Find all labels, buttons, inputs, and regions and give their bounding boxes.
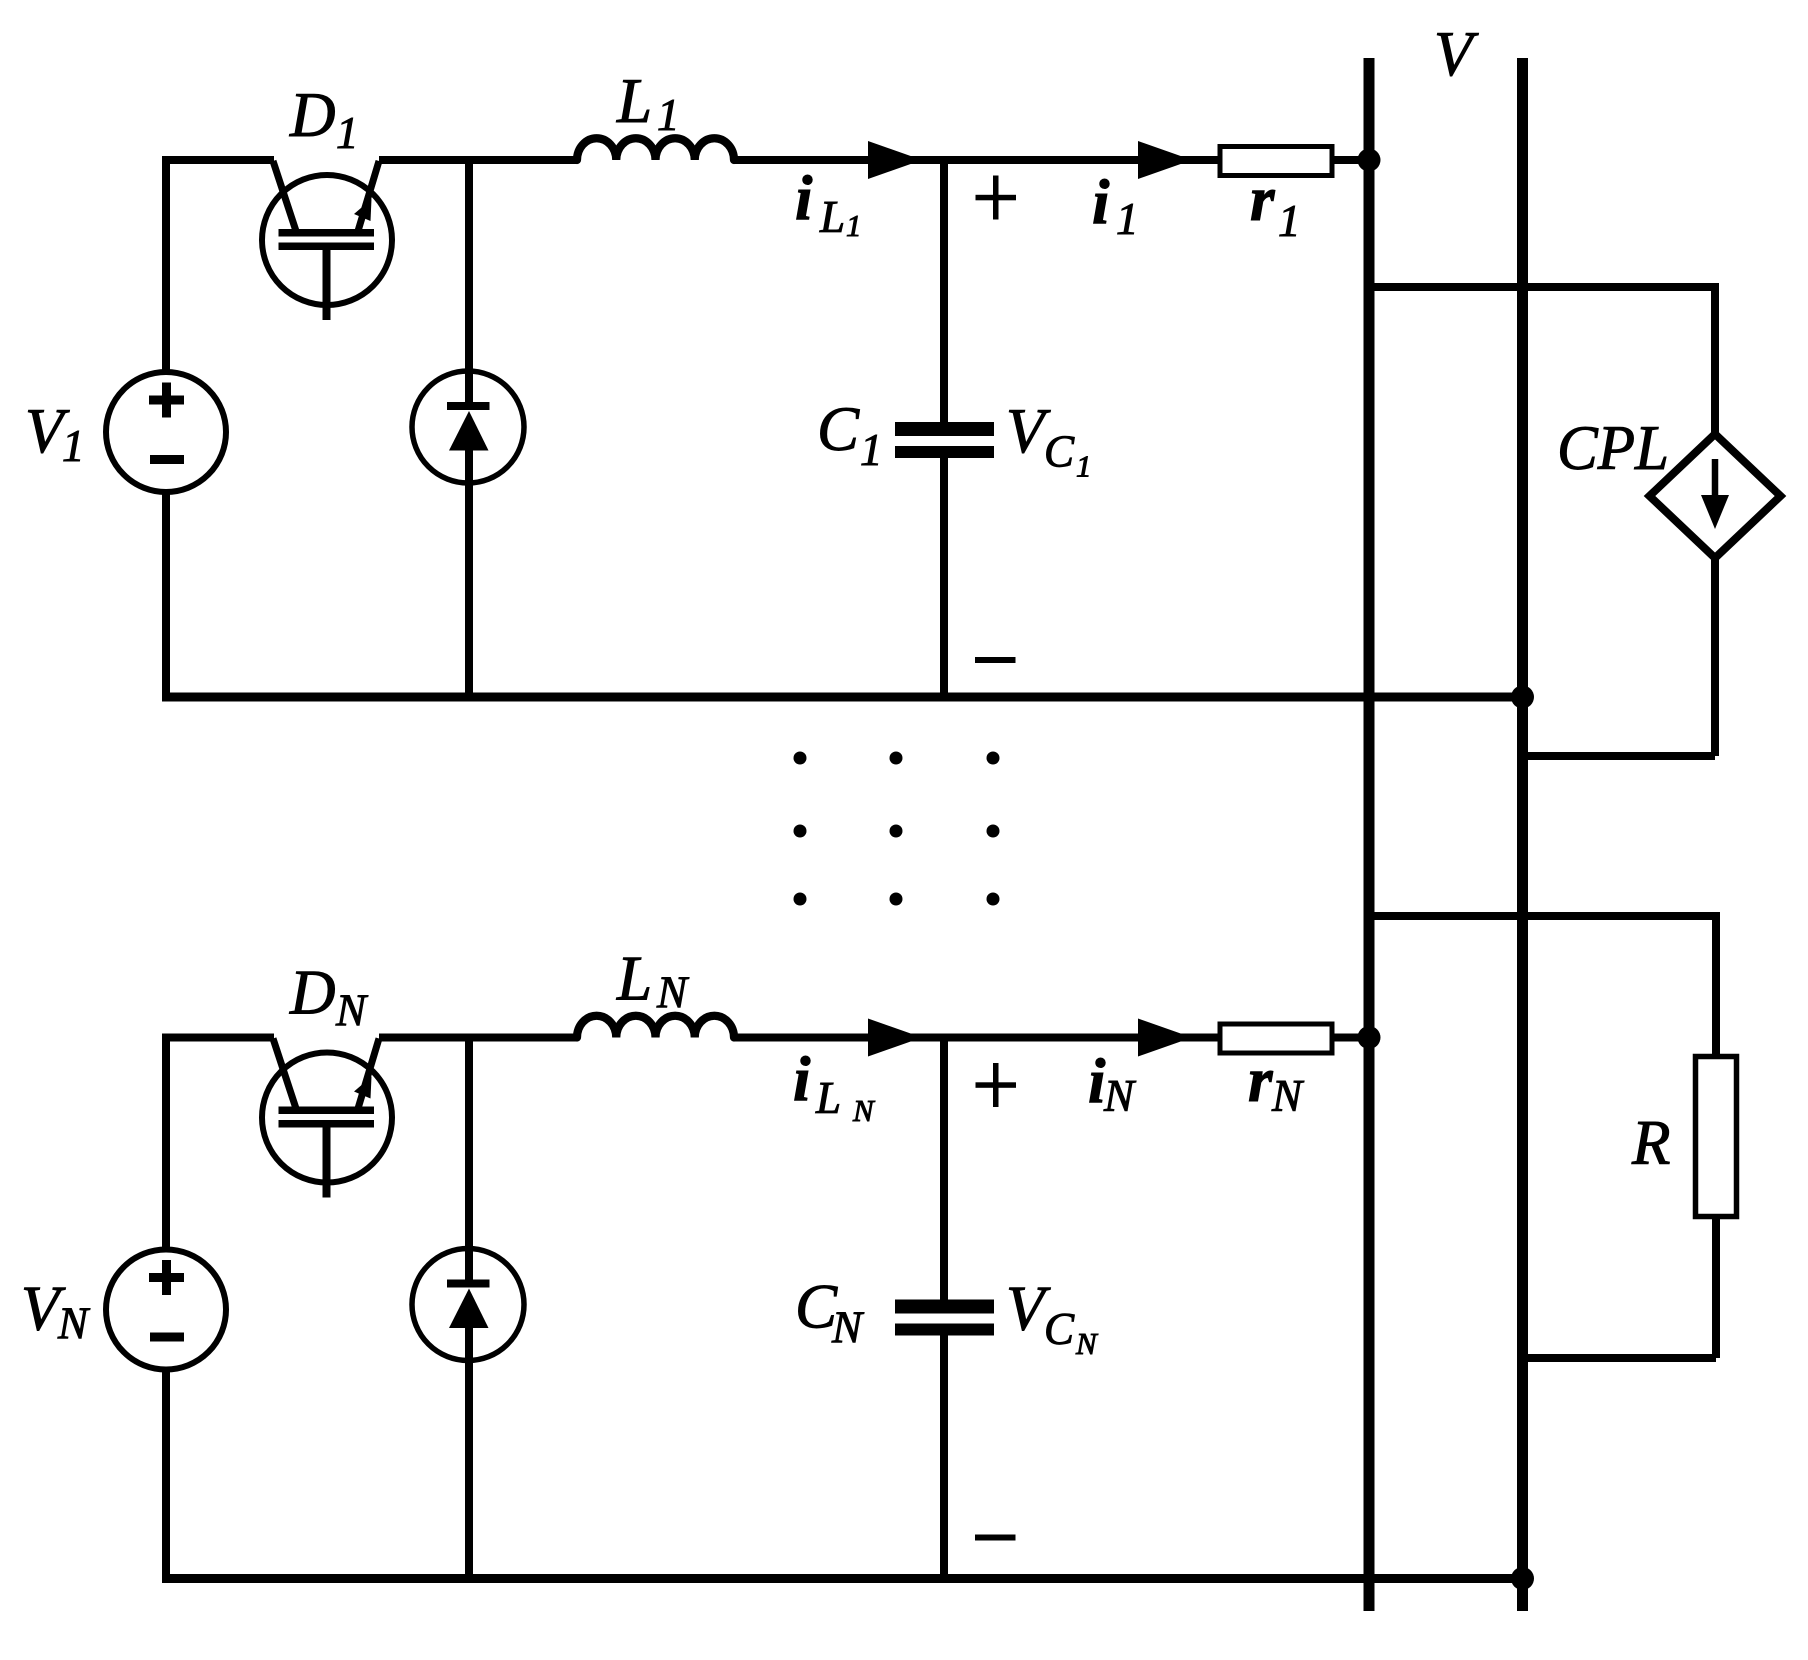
svg-text:CPL: CPL	[1557, 413, 1669, 483]
svg-text:N: N	[1075, 1326, 1099, 1361]
resistor R	[1696, 1057, 1737, 1217]
svg-text:N: N	[335, 986, 369, 1036]
svg-text:1: 1	[846, 208, 862, 243]
svg-text:C: C	[817, 394, 860, 464]
bus: return DC bus (right vertical)	[1517, 58, 1528, 1611]
wire: diode branch lower lead (converter N)	[465, 1326, 473, 1584]
svg-text:N: N	[57, 1299, 91, 1349]
label plus (capacitor N polarity)	[976, 1082, 1017, 1088]
svg-text:r: r	[1250, 164, 1275, 234]
wire: resistor R upper lead	[1712, 912, 1720, 1058]
wire: capacitor CN bottom lead	[940, 1336, 948, 1584]
svg-text:1: 1	[657, 90, 680, 140]
svg-text:C: C	[1044, 427, 1075, 477]
svg-text:V: V	[1434, 19, 1479, 89]
current arrow i_LN	[868, 1019, 922, 1057]
svg-text:1: 1	[1076, 449, 1092, 484]
inductor L1	[577, 138, 734, 160]
voltage source VN	[106, 1250, 226, 1370]
wire: top rail middle segment (converter 1)	[379, 156, 577, 164]
bus: positive DC bus (left vertical)	[1364, 58, 1375, 1611]
wire: CPL return to bus	[1523, 752, 1716, 760]
wire: resistor R lower lead	[1712, 1215, 1720, 1358]
svg-text:N: N	[852, 1093, 876, 1128]
wire: top rail left segment (converter N)	[162, 1034, 274, 1042]
svg-text:N: N	[1271, 1071, 1305, 1121]
svg-text:1: 1	[860, 425, 883, 475]
current arrow i_L1	[868, 141, 922, 179]
wire: top rail right segment through node to resistor r1 and bus	[734, 156, 1369, 164]
diode (circled) of converter N	[412, 1249, 524, 1361]
wire: source VN top lead	[162, 1034, 170, 1250]
node: converter 1 output junction on bus	[1358, 149, 1381, 172]
svg-text:1: 1	[62, 421, 85, 471]
wire: top rail middle segment (converter N)	[379, 1034, 577, 1042]
current arrow i_N	[1138, 1019, 1192, 1057]
transistor DN (circled switch)	[262, 1053, 392, 1183]
svg-text:L: L	[616, 66, 652, 136]
resistor r1	[1220, 147, 1332, 176]
wire: source V1 top lead	[162, 156, 170, 372]
svg-text:L: L	[616, 944, 652, 1014]
diode (circled) of converter 1	[412, 371, 524, 483]
label minus (capacitor 1 polarity)	[975, 657, 1016, 663]
svg-text:i: i	[1092, 167, 1110, 237]
label minus (capacitor N polarity)	[975, 1535, 1016, 1541]
transistor D1 (circled switch)	[262, 175, 392, 305]
inductor LN	[577, 1016, 734, 1038]
svg-text:N: N	[831, 1303, 865, 1353]
node: rail N junction on return bus	[1511, 1567, 1534, 1590]
wire: return rail of converter N	[162, 1574, 1523, 1583]
wire: capacitor CN top lead	[940, 1034, 948, 1300]
svg-text:D: D	[289, 958, 336, 1028]
ellipsis dots (repeated converters)	[794, 752, 807, 765]
svg-text:i: i	[793, 1044, 811, 1114]
wire: capacitor C1 top lead	[940, 156, 948, 422]
svg-text:D: D	[289, 80, 336, 150]
wire: source V1 bottom lead	[162, 492, 170, 702]
wire: CPL lower vertical lead	[1711, 555, 1719, 756]
capacitor CN	[895, 1300, 994, 1314]
wire: CPL upper vertical lead	[1711, 283, 1719, 437]
svg-text:R: R	[1631, 1108, 1670, 1178]
capacitor C1	[895, 422, 994, 436]
wire: diode branch upper lead (converter 1)	[465, 156, 473, 406]
svg-text:r: r	[1248, 1045, 1273, 1115]
node: converter N output junction on bus	[1358, 1026, 1381, 1049]
wire: source VN bottom lead	[162, 1370, 170, 1584]
wire: capacitor C1 bottom lead	[940, 458, 948, 702]
wire: return rail of converter 1	[162, 693, 1523, 702]
CPL constant power load (controlled current source)	[1650, 434, 1781, 558]
svg-text:N: N	[1103, 1071, 1137, 1121]
wire: diode branch lower lead (converter 1)	[465, 448, 473, 702]
wire: resistor R return to bus	[1523, 1354, 1717, 1362]
node: rail 1 junction on return bus	[1511, 686, 1534, 709]
wire: diode branch upper lead (converter N)	[465, 1034, 473, 1284]
label plus (capacitor 1 polarity)	[976, 195, 1017, 201]
resistor rN	[1220, 1024, 1332, 1053]
svg-text:L: L	[819, 192, 845, 242]
wire: top rail right segment through node to resistor rN and bus	[734, 1034, 1369, 1042]
svg-text:N: N	[656, 968, 690, 1018]
wire: top rail left segment (converter 1)	[162, 156, 274, 164]
svg-text:C: C	[1044, 1304, 1075, 1354]
voltage source V1	[106, 372, 226, 492]
svg-text:i: i	[795, 163, 813, 233]
current arrow i_1	[1138, 141, 1192, 179]
svg-text:1: 1	[1116, 194, 1139, 244]
wire: CPL top feed from positive bus	[1369, 283, 1715, 291]
wire: resistor R top feed from positive bus	[1369, 912, 1716, 920]
svg-text:L: L	[815, 1073, 841, 1123]
svg-text:1: 1	[336, 108, 359, 158]
svg-text:1: 1	[1278, 196, 1301, 246]
